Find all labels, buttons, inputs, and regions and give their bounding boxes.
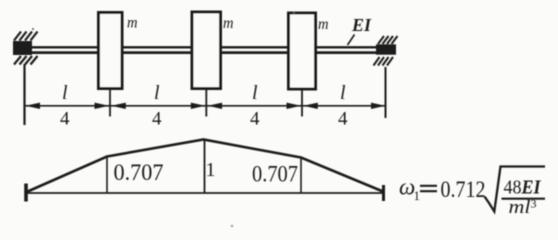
fixed support right: wall block (376, 44, 396, 54)
fixed support left: hatching above (14, 32, 38, 41)
svg-text:0.712: 0.712 (441, 177, 486, 202)
svg-text:1: 1 (206, 159, 216, 181)
label l/4 segment 4 (338, 82, 348, 130)
ordinate line at quarter span (106, 157, 108, 193)
svg-text:1: 1 (414, 188, 421, 203)
formula equals sign (420, 186, 437, 191)
mass m1 (rectangle on beam) (99, 13, 123, 89)
svg-text:l: l (154, 82, 160, 104)
fixed support right: hatching below (374, 57, 394, 66)
svg-text:0.707: 0.707 (252, 162, 298, 187)
dimension extension line right (385, 67, 387, 118)
fixed support right: hatching above (378, 36, 398, 44)
mode shape right end tick (382, 185, 385, 201)
svg-text:0.707: 0.707 (114, 160, 164, 185)
mass m2 (rectangle on beam) (192, 12, 221, 89)
svg-text:m: m (318, 16, 329, 33)
mode shape baseline (26, 192, 384, 194)
svg-text:m: m (127, 15, 138, 32)
mass m3 stub / extension (301, 89, 303, 117)
radicand denominator ml3 (509, 197, 537, 219)
radical sign (485, 167, 546, 212)
svg-text:l: l (252, 82, 258, 104)
formula omega1 (399, 175, 420, 204)
label l/4 segment 3 (250, 82, 260, 130)
svg-text:l: l (62, 82, 68, 104)
svg-text:4: 4 (152, 109, 162, 130)
scan speckle (293, 12, 295, 14)
svg-text:4: 4 (60, 109, 70, 130)
label l/4 segment 1 (60, 82, 70, 130)
svg-text:EI: EI (351, 15, 372, 35)
svg-text:4: 4 (338, 109, 348, 130)
mode shape polyline (27, 140, 384, 193)
mass m1 stub / extension (109, 89, 111, 117)
svg-text:3: 3 (531, 197, 537, 211)
fraction bar (502, 198, 546, 200)
label l/4 segment 2 (152, 82, 162, 130)
svg-text:l: l (340, 82, 346, 104)
svg-text:4: 4 (250, 109, 260, 130)
svg-text:m: m (223, 15, 234, 32)
scan speckle (32, 28, 34, 30)
ordinate line at mid span (204, 141, 206, 194)
fixed support left: hatching below (14, 56, 38, 65)
svg-text:ml: ml (509, 197, 531, 218)
dimension extension line left (23, 64, 25, 125)
dimension arrowheads (26, 103, 386, 109)
beam EI (double line) (28, 47, 396, 52)
svg-text:48EI: 48EI (504, 177, 542, 199)
dimension line (25, 105, 386, 107)
EI leader line (348, 35, 355, 46)
mass m3 (rectangle on beam) (289, 13, 316, 89)
mode shape left end tick (24, 184, 28, 202)
fixed support left: wall block (13, 41, 32, 55)
mass m2 stub / extension (205, 89, 207, 117)
ordinate line at three-quarter span (300, 158, 302, 193)
scan speckle (231, 225, 233, 227)
